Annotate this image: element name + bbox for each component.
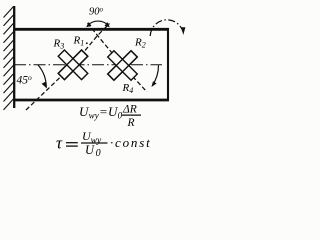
svg-text:R: R [127, 117, 135, 129]
svg-text:Uwy=U0: Uwy=U0 [79, 104, 123, 121]
svg-text:ΔR: ΔR [122, 104, 137, 116]
svg-text:·const: ·const [110, 135, 152, 150]
svg-text:τ: τ [56, 134, 63, 153]
